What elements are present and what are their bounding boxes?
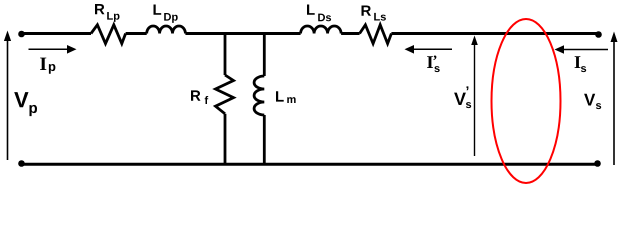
- wire shunt branch Rf bottom: [224, 114, 227, 164]
- voltage arrow Vp: [4, 31, 11, 161]
- label I_p: [40, 58, 55, 74]
- label L_Ds: [307, 5, 331, 22]
- resistor R_Ls: [360, 25, 392, 44]
- current arrow Ip: [29, 45, 77, 54]
- inductor L_Ds: [301, 26, 342, 34]
- label L_m: [276, 91, 296, 103]
- label L_Dp: [154, 5, 178, 23]
- node dot bottom-right: [594, 160, 601, 167]
- wire segment between R_Lp and L_Dp: [126, 32, 147, 35]
- ideal transformer boundary ellipse (red): [492, 19, 561, 183]
- label V_s': [454, 86, 471, 108]
- wire top segment middle: [185, 32, 300, 35]
- label I_s': [427, 56, 440, 73]
- label V_s: [584, 94, 601, 109]
- wire bottom: [21, 163, 598, 166]
- label R_Lp: [95, 4, 120, 22]
- wire shunt branch Lm bottom: [263, 115, 266, 164]
- wire segment between L_Ds and R_Ls: [341, 32, 360, 35]
- label R_f: [191, 90, 208, 104]
- wire shunt branch Rf top: [224, 34, 227, 76]
- wire shunt branch Lm top: [263, 34, 266, 77]
- voltage arrow Vs': [471, 36, 478, 157]
- resistor R_f: [216, 75, 234, 114]
- node dot bottom-left: [18, 160, 25, 167]
- label I_s: [575, 56, 587, 72]
- wire top segment right: [391, 32, 599, 35]
- inductor L_m: [254, 76, 264, 115]
- label V_p: [14, 92, 37, 116]
- voltage arrow Vs: [611, 32, 618, 166]
- current arrow Is: [555, 45, 609, 54]
- current arrow Is': [405, 45, 453, 54]
- label R_Ls: [362, 6, 386, 21]
- node dot top-right: [595, 31, 602, 38]
- resistor R_Lp: [91, 25, 126, 44]
- wire top segment left: [21, 32, 91, 35]
- node dot top-left: [18, 31, 25, 38]
- inductor L_Dp: [147, 26, 186, 34]
